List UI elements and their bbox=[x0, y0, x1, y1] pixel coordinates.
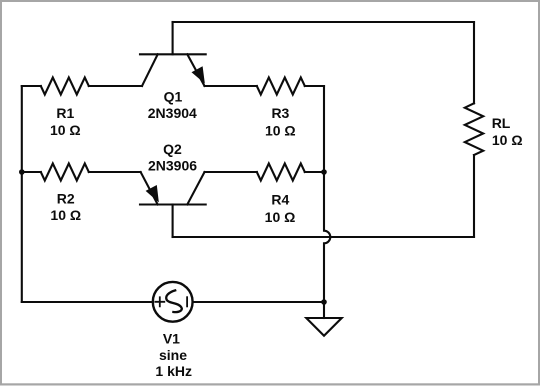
svg-text:10 Ω: 10 Ω bbox=[492, 132, 523, 148]
wire inner rail lower segment with hop over base wire bbox=[324, 172, 330, 302]
wire R1 to Q1 collector bbox=[89, 85, 142, 87]
wire left rail bbox=[21, 86, 23, 302]
wire RL bottom to Q2 base bbox=[173, 236, 474, 238]
wire RL top lead bbox=[473, 22, 475, 103]
wire R1 left lead bbox=[22, 85, 41, 87]
wire RL bottom lead bbox=[473, 155, 475, 237]
wire top rail bbox=[173, 21, 474, 23]
svg-text:R4: R4 bbox=[271, 191, 289, 207]
svg-text:10 Ω: 10 Ω bbox=[265, 123, 296, 139]
svg-text:10 Ω: 10 Ω bbox=[50, 207, 81, 223]
svg-text:1 kHz: 1 kHz bbox=[155, 363, 192, 379]
node junction left rail / R2 bbox=[19, 169, 25, 175]
wire R3 to inner rail bbox=[305, 85, 324, 87]
svg-text:Q2: Q2 bbox=[163, 141, 182, 157]
svg-text:R3: R3 bbox=[271, 105, 289, 121]
wire inner rail upper segment bbox=[323, 86, 325, 172]
node junction ground bbox=[321, 299, 327, 305]
svg-text:Q1: Q1 bbox=[164, 89, 183, 105]
wire R2 left lead bbox=[22, 171, 41, 173]
svg-text:R2: R2 bbox=[57, 190, 75, 206]
transistor Q1 bbox=[140, 22, 206, 86]
wire R4 to inner rail bbox=[305, 171, 324, 173]
svg-text:RL: RL bbox=[492, 115, 511, 131]
svg-text:R1: R1 bbox=[56, 105, 74, 121]
resistor RL bbox=[465, 103, 483, 155]
transistor Q2 bbox=[140, 172, 206, 237]
svg-text:10 Ω: 10 Ω bbox=[50, 122, 81, 138]
svg-text:2N3906: 2N3906 bbox=[148, 158, 197, 174]
ground bbox=[306, 302, 341, 336]
resistor R3 bbox=[257, 78, 305, 95]
wire V1 to ground node bbox=[193, 301, 324, 303]
resistor R4 bbox=[257, 164, 305, 181]
wire Q2 collector to R4 bbox=[205, 171, 257, 173]
wire bottom rail left bbox=[22, 301, 152, 303]
svg-text:V1: V1 bbox=[163, 330, 180, 346]
svg-text:sine: sine bbox=[159, 347, 187, 363]
resistor R2 bbox=[41, 164, 89, 181]
svg-text:10 Ω: 10 Ω bbox=[265, 209, 296, 225]
svg-text:2N3904: 2N3904 bbox=[148, 105, 197, 121]
node junction R4 / inner rail bbox=[321, 169, 327, 175]
resistor R1 bbox=[41, 78, 89, 95]
wire R2 to Q2 emitter bbox=[89, 171, 141, 173]
wire Q1 emitter to R3 bbox=[205, 85, 257, 87]
voltage source V1 bbox=[153, 282, 193, 322]
